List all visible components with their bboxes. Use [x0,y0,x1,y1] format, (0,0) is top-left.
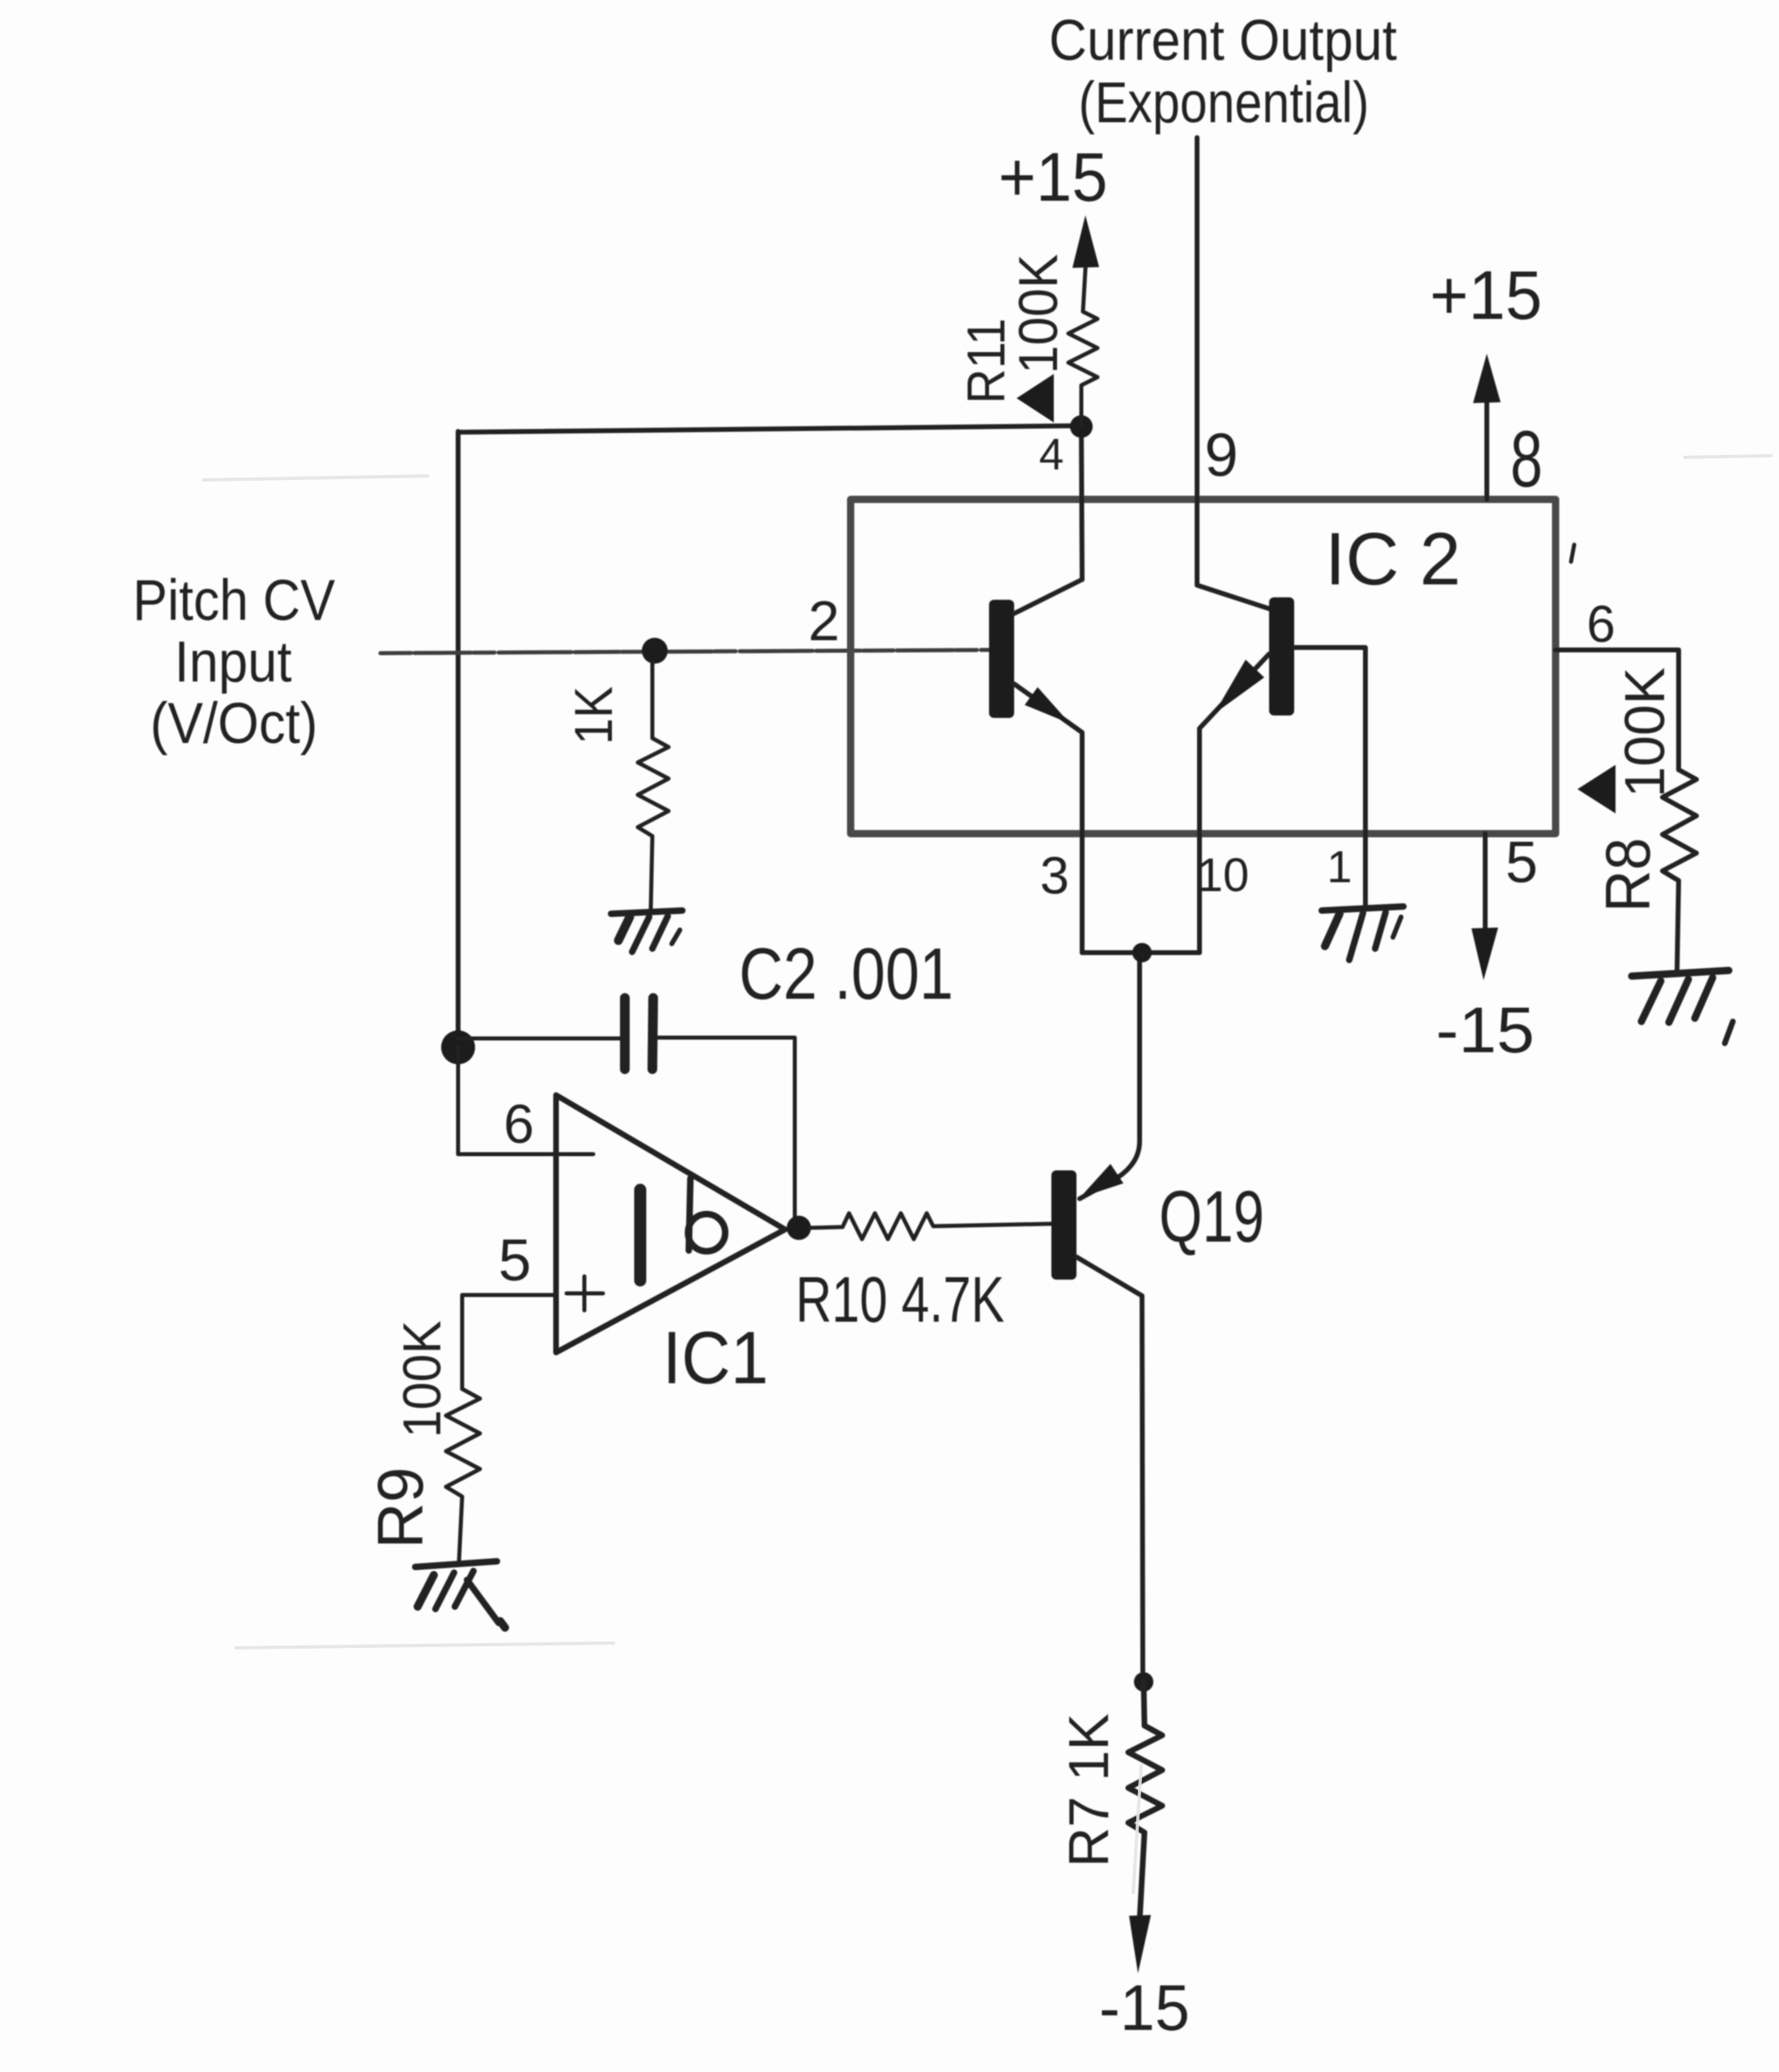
svg-text:6: 6 [1586,595,1616,653]
node junction pitch CV / 1K [642,638,668,664]
R8 trimmer wiper arrow [1577,765,1616,813]
ground under 1K [611,911,682,952]
power arrow to -15 (bottom) [1129,1915,1151,1973]
wire pin 6 to R8 [1556,650,1679,770]
svg-text:10: 10 [1197,849,1250,902]
ground under pin 1 [1322,906,1403,960]
resistor R8 100K [1662,770,1696,972]
resistor R11 100K to +15 [1068,256,1098,427]
resistor 1K [638,662,669,911]
wire pin 3 (IC2-A emitter) [1080,734,1085,953]
svg-text:Current Output: Current Output [1049,9,1397,73]
wire emitter bus [1082,950,1199,955]
wire pin 8 to +15 [1484,380,1489,499]
wire IC1 pin 5 non-inverting input [462,1295,556,1389]
resistor R7 1K [1128,1682,1162,1921]
svg-text:-15: -15 [1436,994,1535,1066]
wire Pitch CV input to pin 2 [380,650,989,653]
svg-text:9: 9 [1204,421,1238,489]
svg-text:5: 5 [499,1228,532,1293]
wire C2 right plate to IC1 output [655,1038,795,1224]
tick mark near box corner [1571,545,1574,562]
wire feedback left vertical rail [456,431,461,1047]
transistor IC2-B (right half) [1199,597,1294,953]
power arrow to -15 (right) [1471,928,1498,980]
transistor IC2-A (left half) [989,580,1082,953]
svg-text:R7 1K: R7 1K [1057,1713,1120,1867]
svg-text:100K: 100K [1008,254,1069,374]
svg-text:100K: 100K [1613,668,1676,798]
resistor R10 4.7K [810,1213,1051,1239]
svg-text:(Exponential): (Exponential) [1079,71,1369,135]
op-amp U1: IC1 [556,1095,785,1352]
svg-text:Q19: Q19 [1159,1177,1264,1258]
svg-text:100K: 100K [392,1321,452,1438]
svg-text:+15: +15 [999,139,1108,216]
net label: Pitch CV Input (V/Oct) [133,569,336,756]
svg-text:Input: Input [175,631,292,694]
power arrow to +15 (right) [1473,354,1501,403]
wire pin 5 to -15 [1483,834,1488,939]
svg-text:8: 8 [1510,414,1543,503]
svg-text:R8: R8 [1592,838,1663,912]
svg-text:3: 3 [1040,846,1069,905]
node junction feedback/C2/pin6 [441,1030,475,1064]
svg-text:IC1: IC1 [663,1317,769,1399]
svg-text:4: 4 [1039,429,1064,479]
node junction emitter bus / Q19 collector [1132,943,1152,962]
svg-text:C2 .001: C2 .001 [739,934,953,1015]
IC U2 package box: IC2 [851,499,1556,834]
R11 trimmer wiper arrow [1017,374,1054,422]
svg-text:+15: +15 [1430,257,1543,334]
ground under R8 [1632,970,1733,1043]
svg-text:6: 6 [503,1093,534,1155]
capacitor C2 [458,998,653,1069]
svg-text:IC 2: IC 2 [1325,518,1461,601]
svg-text:1K: 1K [563,686,623,745]
svg-text:R9: R9 [364,1467,436,1549]
svg-text:R10 4.7K: R10 4.7K [796,1263,1004,1335]
wire pin 1 (IC2-B base) to ground [1294,647,1365,908]
wire IC1 pin 6 inverting input [458,1047,593,1154]
wire pin 9 / current output line [1197,138,1269,609]
svg-text:Pitch CV: Pitch CV [133,569,336,633]
svg-text:2: 2 [809,589,840,652]
node junction R11 / pin 4 / feedback [1070,415,1093,438]
ground under R9 [415,1561,505,1628]
transistor Q19 [1051,962,1143,1682]
power arrow to +15 (left) [1072,215,1099,268]
svg-text:5: 5 [1505,830,1538,895]
svg-text:-15: -15 [1099,1972,1190,2044]
svg-text:(V/Oct): (V/Oct) [151,692,318,756]
svg-text:1: 1 [1327,841,1352,892]
node IC1 output junction [787,1216,811,1240]
resistor R9 [446,1389,480,1563]
svg-text:R11: R11 [956,318,1016,404]
net label: Current Output (Exponential) [1049,9,1397,135]
wire pin 4 (IC2-A collector to R11) [1081,427,1082,580]
wire feedback top horizontal (R11 junction to left rail) [458,426,1081,432]
node junction Q19 emitter / R7 [1134,1672,1153,1692]
